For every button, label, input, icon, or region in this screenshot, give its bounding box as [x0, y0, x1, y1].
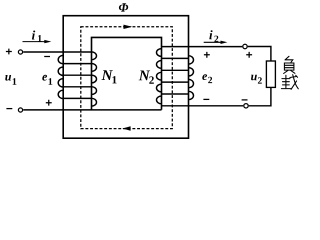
winding N2 turn wire 3 [162, 69, 189, 71]
winding N2 turn wire 5 [162, 93, 189, 95]
wire primary bottom lead and core window bottom edge [23, 109, 161, 111]
label turns N1 [102, 70, 117, 83]
wire secondary top lead from winding [162, 46, 243, 48]
transformer core window inner edge (bottom edge drawn with lead wire) [92, 37, 162, 109]
winding N1 turn wire 5 [63, 97, 91, 99]
load resistor box [266, 61, 275, 87]
current arrow i1 [23, 40, 52, 43]
wire primary top lead into winding [23, 51, 91, 53]
winding N2 outer-side arc 4 [189, 91, 194, 99]
plus sign at u1 top [6, 49, 12, 55]
winding N1 left-side arc 3 [58, 79, 63, 87]
winding N1 left-side arc 4 [58, 90, 63, 98]
minus sign at e1 top [44, 56, 50, 58]
winding N1 turn wire 4 [63, 86, 91, 88]
terminal secondary plus [243, 44, 247, 48]
flux arrow on top dashed edge pointing right [124, 25, 133, 29]
terminal secondary minus [244, 104, 248, 108]
winding N2 inner-side arc 3 [157, 72, 162, 80]
winding N2 inner-side arc 4 [157, 84, 162, 92]
label voltage u2 [251, 75, 262, 84]
minus sign at u2 bottom [242, 99, 248, 101]
winding N1 turn wire 3 [63, 74, 91, 76]
winding N1 turn wire 2 [63, 63, 91, 65]
minus sign at u1 bottom [6, 108, 12, 110]
winding N2 inner-side arc 2 [157, 61, 162, 69]
wire load to bottom terminal [249, 87, 271, 105]
terminal primary minus [18, 108, 22, 112]
label emf e2 [202, 74, 212, 83]
wire secondary bottom lead from winding [162, 105, 244, 107]
winding N1 right-side arc 3 [92, 75, 97, 83]
wire secondary top terminal to load [248, 47, 271, 62]
winding N2 outer-side arc 1 [189, 56, 194, 64]
winding N2 outer-side arc 2 [189, 68, 194, 76]
flux arrow on bottom dashed edge pointing left [122, 126, 130, 130]
winding N2 outer-side arc 3 [189, 79, 194, 87]
plus sign at u2 top [246, 52, 252, 58]
label current i2 [209, 30, 218, 42]
winding N2 inner-side arc 1 [157, 49, 162, 57]
label current i1 [32, 31, 42, 42]
winding N1 right-side arc 1 [92, 52, 97, 60]
label voltage u1 [5, 75, 16, 85]
plus sign at e2 top [204, 52, 210, 58]
winding N1 left-side arc 2 [58, 67, 63, 75]
minus sign at e2 bottom [203, 98, 209, 100]
label turns N2 [139, 71, 154, 84]
label emf e1 [42, 75, 52, 85]
current arrow i2 [204, 41, 228, 44]
terminal primary plus [18, 50, 22, 54]
winding N1 right-side arc 2 [92, 64, 97, 72]
winding N1 right-side arc 4 [92, 87, 97, 95]
winding N2 inner-side arc 5 [157, 96, 162, 104]
label flux PHI [119, 3, 128, 11]
load label chinese ZAI (load/carry) [281, 75, 298, 90]
winding N2 turn wire 2 [162, 57, 189, 59]
winding N1 left-side arc 1 [58, 55, 63, 63]
winding N1 right-side arc 5 [92, 98, 97, 106]
load label chinese FU (negative/bear) [284, 56, 295, 73]
plus sign at e1 bottom [46, 100, 52, 106]
winding N2 turn wire 4 [162, 81, 189, 83]
transformer core outer edge [63, 16, 188, 139]
flux path dashed loop [81, 27, 173, 129]
